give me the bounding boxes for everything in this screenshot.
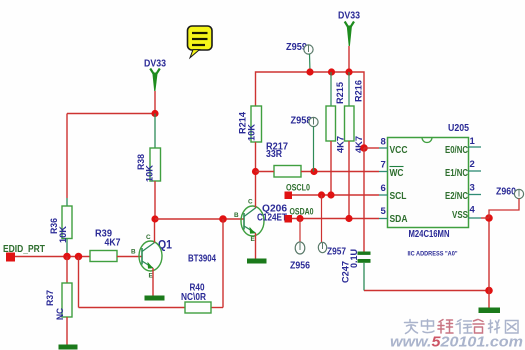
wire top rail xyxy=(256,72,365,148)
node VSS junction xyxy=(485,214,493,222)
wire to R37 xyxy=(66,257,68,284)
svg-text:E2/NC: E2/NC xyxy=(445,191,468,202)
svg-text:NC: NC xyxy=(54,308,65,320)
svg-text:U205: U205 xyxy=(448,123,469,134)
wire R37 bottom lead xyxy=(66,317,68,345)
wire R40 right xyxy=(211,307,223,309)
svg-text:B: B xyxy=(131,249,136,256)
wire R38 bottom to node xyxy=(154,181,156,219)
resistor R37 xyxy=(44,283,72,320)
svg-text:C124ET: C124ET xyxy=(257,212,287,224)
pin 8 xyxy=(379,137,388,149)
wire Z956 drop xyxy=(299,219,301,243)
ground Q1 xyxy=(145,296,165,301)
svg-text:10K: 10K xyxy=(144,165,155,182)
wire Q206 collector up xyxy=(255,172,257,208)
testpoint Z960 xyxy=(496,187,524,199)
wire R39 to Q1 base xyxy=(117,256,142,258)
resistor R214 xyxy=(237,106,262,142)
pin 4 xyxy=(469,205,482,219)
node base net junction xyxy=(219,215,227,223)
port OSDA0 xyxy=(285,207,314,223)
node SDA/R216 xyxy=(345,215,352,222)
svg-text:R216: R216 xyxy=(353,80,364,102)
ground Q206 xyxy=(247,259,267,264)
resistor R215 xyxy=(326,82,346,153)
testpoint Z957 xyxy=(318,242,346,257)
wire Q206 emitter down xyxy=(255,233,257,259)
testpoint Z958 xyxy=(291,116,319,127)
svg-text:33R: 33R xyxy=(266,149,283,160)
svg-text:8: 8 xyxy=(381,137,386,148)
svg-text:www.520101.com: www.520101.com xyxy=(390,335,523,350)
wire EDID_PRT horizontal xyxy=(15,256,90,258)
svg-text:M24C16MN: M24C16MN xyxy=(409,229,450,240)
node rail R216 xyxy=(345,68,352,75)
svg-text:5: 5 xyxy=(381,206,387,217)
node VCC junction xyxy=(360,144,368,152)
svg-text:Z956: Z956 xyxy=(290,261,310,272)
svg-text:WC: WC xyxy=(390,168,404,179)
svg-text:Z957: Z957 xyxy=(327,247,346,258)
wire down to R40 xyxy=(222,219,224,308)
wire SCL xyxy=(292,194,379,196)
watermark chinese xyxy=(405,320,519,334)
pin 7 xyxy=(379,160,388,172)
svg-text:4K7: 4K7 xyxy=(105,238,121,249)
svg-text:VSS: VSS xyxy=(452,210,468,221)
wire left vertical to R36 xyxy=(66,114,68,199)
svg-text:IIC ADDRESS "A0": IIC ADDRESS "A0" xyxy=(408,251,458,258)
wire C247 bottom lead xyxy=(363,263,365,291)
ground right xyxy=(479,308,501,314)
svg-text:1: 1 xyxy=(470,136,476,147)
wire top-left horizontal xyxy=(67,113,155,115)
port OSCL0 xyxy=(285,183,311,200)
svg-text:7: 7 xyxy=(381,160,386,171)
wire VCC down to C247 xyxy=(363,148,365,252)
wire Q1 emitter down xyxy=(152,268,154,296)
node R217/Z958 xyxy=(310,168,317,175)
node SCL/R215 xyxy=(327,191,334,198)
note icon xyxy=(188,26,213,58)
svg-text:R215: R215 xyxy=(334,82,345,104)
svg-text:3: 3 xyxy=(470,183,475,194)
pin 6 xyxy=(379,183,388,195)
wire DV33-left drop xyxy=(154,91,156,114)
wire R217 left xyxy=(256,171,275,173)
svg-text:VCC: VCC xyxy=(390,145,408,156)
svg-text:E0/NC: E0/NC xyxy=(445,145,468,156)
node rail R215 xyxy=(328,68,335,75)
node EDID junction 1 xyxy=(63,253,71,261)
resistor R216 xyxy=(345,80,365,153)
resistor R38 xyxy=(135,148,161,182)
wire R40 left xyxy=(79,307,186,309)
wire R217 right to WC xyxy=(301,171,379,173)
wire R214 bottom xyxy=(255,142,257,172)
wire VSS vertical xyxy=(488,218,490,291)
svg-text:C: C xyxy=(248,199,253,206)
transistor Q1 xyxy=(131,234,172,280)
pin 1 xyxy=(469,136,482,147)
resistor R39 xyxy=(90,229,121,262)
svg-text:Z960: Z960 xyxy=(496,187,516,198)
svg-text:SDA: SDA xyxy=(390,214,408,225)
svg-text:SCL: SCL xyxy=(390,191,407,202)
svg-text:E: E xyxy=(251,236,256,243)
resistor R217 xyxy=(266,142,301,178)
node EDID junction 2 xyxy=(75,253,83,261)
wire Z957 drop xyxy=(321,195,323,243)
wire R36 top lead xyxy=(66,198,68,206)
svg-text:E1/NC: E1/NC xyxy=(445,168,468,179)
svg-text:C: C xyxy=(146,234,151,241)
node R214/R217 xyxy=(252,168,259,175)
wire DV33-right drop xyxy=(348,46,350,72)
pin 3 xyxy=(469,183,482,195)
svg-text:0.1U: 0.1U xyxy=(348,249,359,268)
testpoint Z959 xyxy=(286,42,313,54)
svg-text:DV33: DV33 xyxy=(144,59,166,70)
svg-text:2: 2 xyxy=(470,159,475,170)
wire R216 top lead xyxy=(348,72,350,106)
wire down from junction 2 xyxy=(78,257,80,308)
svg-text:4: 4 xyxy=(470,205,476,216)
pin 5 xyxy=(379,206,388,219)
capacitor C247 xyxy=(340,249,371,283)
wire R216 bottom to SDA xyxy=(348,141,350,219)
node bottom junction xyxy=(485,287,493,295)
wire bottom net horizontal xyxy=(364,290,489,292)
node SCL/Z957 xyxy=(318,191,325,198)
wire Q1 collector up xyxy=(154,219,156,243)
wire bottom to ground xyxy=(488,291,490,309)
resistor R36 xyxy=(48,206,72,243)
node rail Z959 xyxy=(306,68,313,75)
svg-text:10K: 10K xyxy=(246,124,257,141)
wire VCC to pin8 xyxy=(364,147,379,149)
svg-text:BT3904: BT3904 xyxy=(188,254,216,265)
wire R215 top lead xyxy=(330,72,332,106)
transistor Q206 xyxy=(234,199,264,244)
ground R37 xyxy=(59,345,78,350)
wire base net horizontal xyxy=(155,218,244,220)
port EDID_PRT xyxy=(3,244,45,262)
op-amp U205 (IC M24C16MN) xyxy=(388,123,470,228)
wire VSS to pin4 xyxy=(481,217,489,219)
wire Z958 lead xyxy=(313,127,315,172)
wire R38 top lead xyxy=(154,114,156,149)
node DV33-left junction xyxy=(151,110,158,117)
wire R36 bottom lead xyxy=(66,239,68,257)
wire R215 bottom to SCL xyxy=(330,141,332,195)
wire SDA xyxy=(292,218,379,220)
node SDA/Z956 xyxy=(296,215,303,222)
power DV33 (left) xyxy=(144,59,166,92)
svg-text:DV33: DV33 xyxy=(338,11,360,22)
power DV33 (right) xyxy=(338,11,360,47)
svg-text:B: B xyxy=(234,212,239,219)
node R38/Q1 junction xyxy=(151,215,158,222)
wire Z959 lead xyxy=(309,54,312,72)
pin 2 xyxy=(469,159,482,171)
resistor R40 xyxy=(181,283,211,314)
svg-text:6: 6 xyxy=(381,183,386,194)
wire Z960 to VSS xyxy=(489,199,519,219)
testpoint Z956 xyxy=(290,242,310,272)
svg-text:R37: R37 xyxy=(44,290,55,306)
